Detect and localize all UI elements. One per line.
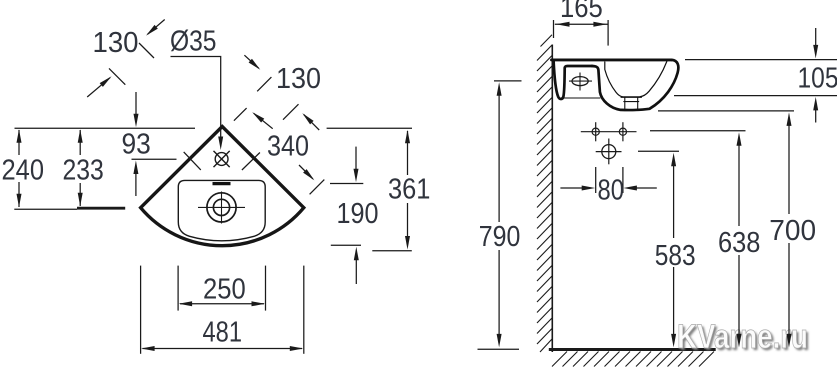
svg-text:361: 361 xyxy=(388,173,430,205)
svg-text:240: 240 xyxy=(2,154,45,186)
svg-text:481: 481 xyxy=(203,317,243,349)
svg-text:190: 190 xyxy=(337,198,379,230)
svg-text:Ø35: Ø35 xyxy=(170,26,217,58)
svg-text:790: 790 xyxy=(479,221,521,253)
svg-text:130: 130 xyxy=(93,27,139,59)
svg-text:250: 250 xyxy=(203,273,246,305)
svg-text:80: 80 xyxy=(598,175,624,207)
svg-text:165: 165 xyxy=(560,0,603,24)
svg-text:638: 638 xyxy=(718,227,760,259)
svg-text:700: 700 xyxy=(769,215,816,247)
svg-text:105: 105 xyxy=(798,62,837,94)
svg-text:583: 583 xyxy=(655,240,696,272)
svg-text:233: 233 xyxy=(63,154,104,186)
svg-text:340: 340 xyxy=(267,130,309,162)
svg-text:93: 93 xyxy=(122,129,151,161)
svg-text:130: 130 xyxy=(276,63,321,95)
